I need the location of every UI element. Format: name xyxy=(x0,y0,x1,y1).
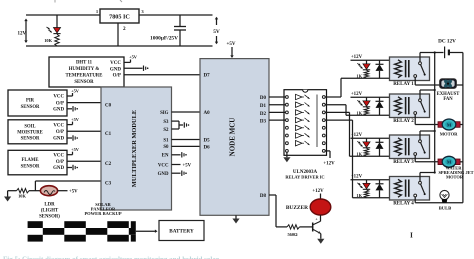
svg-text:C1: C1 xyxy=(105,132,112,137)
svg-text:1K: 1K xyxy=(356,151,362,156)
svg-text:SENSOR: SENSOR xyxy=(21,105,40,110)
svg-text:O/P: O/P xyxy=(56,160,64,165)
svg-text:GND: GND xyxy=(53,137,64,142)
svg-text:+12V: +12V xyxy=(312,189,324,194)
svg-text:1K: 1K xyxy=(356,110,362,115)
svg-text:DC 12V: DC 12V xyxy=(438,39,456,45)
svg-text:SENSOR: SENSOR xyxy=(74,80,94,85)
svg-text:BUZZER: BUZZER xyxy=(286,205,308,211)
svg-text:SENSOR): SENSOR) xyxy=(39,215,60,220)
svg-text:D5: D5 xyxy=(204,138,211,143)
svg-text:I: I xyxy=(410,231,413,240)
svg-text:+12V: +12V xyxy=(351,55,363,60)
svg-text:DHT 11: DHT 11 xyxy=(76,61,93,66)
svg-text:+5V: +5V xyxy=(227,42,236,47)
svg-text:SENSOR: SENSOR xyxy=(21,137,40,142)
svg-text:10K: 10K xyxy=(44,38,52,43)
svg-text:C0: C0 xyxy=(105,103,112,108)
svg-text:VCC: VCC xyxy=(53,95,64,100)
svg-text:C3: C3 xyxy=(105,181,112,186)
svg-text:RELAY 2: RELAY 2 xyxy=(393,119,414,124)
svg-text:M: M xyxy=(447,160,452,165)
svg-text:RELAY 4: RELAY 4 xyxy=(393,202,414,207)
svg-text:SENSOR: SENSOR xyxy=(21,164,40,169)
svg-text:S3: S3 xyxy=(163,120,169,125)
svg-text:MULTIPLEXER MODULE: MULTIPLEXER MODULE xyxy=(131,110,138,187)
svg-text:+12V: +12V xyxy=(323,162,335,167)
svg-text:D6: D6 xyxy=(204,145,211,150)
svg-text:BATTERY: BATTERY xyxy=(169,229,194,235)
svg-text:RELAY DRIVER IC: RELAY DRIVER IC xyxy=(285,175,324,180)
svg-text:+12V: +12V xyxy=(351,175,363,180)
svg-text:SIG: SIG xyxy=(160,111,169,116)
svg-text:+5V: +5V xyxy=(71,89,80,94)
svg-text:+5V: +5V xyxy=(71,117,80,122)
svg-text:+5V: +5V xyxy=(129,55,138,60)
svg-text:D7: D7 xyxy=(204,74,211,79)
svg-text:GND: GND xyxy=(110,67,122,72)
svg-text:(LIGHT: (LIGHT xyxy=(41,209,59,214)
svg-text:POWER BACKUP: POWER BACKUP xyxy=(84,211,121,216)
svg-text:560Ω: 560Ω xyxy=(287,232,298,237)
svg-text:BULB: BULB xyxy=(439,205,452,210)
svg-text:+5V: +5V xyxy=(71,147,80,152)
svg-text:5V: 5V xyxy=(213,29,220,35)
svg-text:D8: D8 xyxy=(260,194,267,199)
svg-text:RELAY 3: RELAY 3 xyxy=(393,160,414,165)
svg-text:+5V: +5V xyxy=(183,164,192,169)
svg-text:C2: C2 xyxy=(105,162,112,167)
svg-text:A0: A0 xyxy=(204,111,211,116)
svg-text:GND: GND xyxy=(158,172,169,177)
svg-text:S0: S0 xyxy=(163,145,169,150)
svg-text:SOIL: SOIL xyxy=(24,124,35,129)
svg-text:1K: 1K xyxy=(356,73,362,78)
svg-text:7805 IC: 7805 IC xyxy=(109,14,130,21)
svg-text:GND: GND xyxy=(53,166,64,171)
svg-text:VCC: VCC xyxy=(158,163,169,168)
svg-text:MOISTURE: MOISTURE xyxy=(17,131,43,136)
svg-text:VCC: VCC xyxy=(110,61,121,66)
svg-text:VCC: VCC xyxy=(53,153,64,158)
svg-text:D0: D0 xyxy=(260,96,267,101)
svg-text:LDR: LDR xyxy=(44,203,55,208)
svg-text:+5V: +5V xyxy=(69,190,78,195)
svg-text:D2: D2 xyxy=(260,112,267,117)
svg-text:D3: D3 xyxy=(260,120,267,125)
svg-text:FLAME: FLAME xyxy=(22,158,39,163)
svg-text:1000µF/25V: 1000µF/25V xyxy=(150,36,178,42)
svg-text:VCC: VCC xyxy=(53,123,64,128)
svg-text:2: 2 xyxy=(123,26,126,32)
svg-text:EN: EN xyxy=(162,154,169,159)
svg-text:GND: GND xyxy=(53,108,64,113)
svg-text:12V: 12V xyxy=(17,32,26,37)
svg-text:1K: 1K xyxy=(356,193,362,198)
svg-text:Fig 5: Circuit diagram of smar: Fig 5: Circuit diagram of smart agricult… xyxy=(3,256,219,259)
svg-text:RELAY 1: RELAY 1 xyxy=(393,82,414,87)
svg-text:NODE MCU: NODE MCU xyxy=(229,118,237,157)
svg-text:O/P: O/P xyxy=(56,130,64,135)
svg-text:PIR: PIR xyxy=(26,99,35,104)
svg-text:O/P: O/P xyxy=(113,74,121,79)
svg-text:MOTOR: MOTOR xyxy=(446,174,464,179)
svg-text:+12V: +12V xyxy=(351,92,363,97)
svg-text:O/P: O/P xyxy=(56,101,64,106)
svg-text:D1: D1 xyxy=(260,104,267,109)
svg-text:S2: S2 xyxy=(163,128,169,133)
svg-text:MOTOR: MOTOR xyxy=(440,131,458,136)
svg-text:FAN: FAN xyxy=(443,97,453,102)
svg-text:TEMPERATURE: TEMPERATURE xyxy=(66,74,103,79)
svg-text:M: M xyxy=(447,122,452,127)
svg-text:HUMIDITY &: HUMIDITY & xyxy=(69,67,100,72)
svg-text:10K: 10K xyxy=(18,194,26,199)
svg-text:S1: S1 xyxy=(163,138,169,143)
